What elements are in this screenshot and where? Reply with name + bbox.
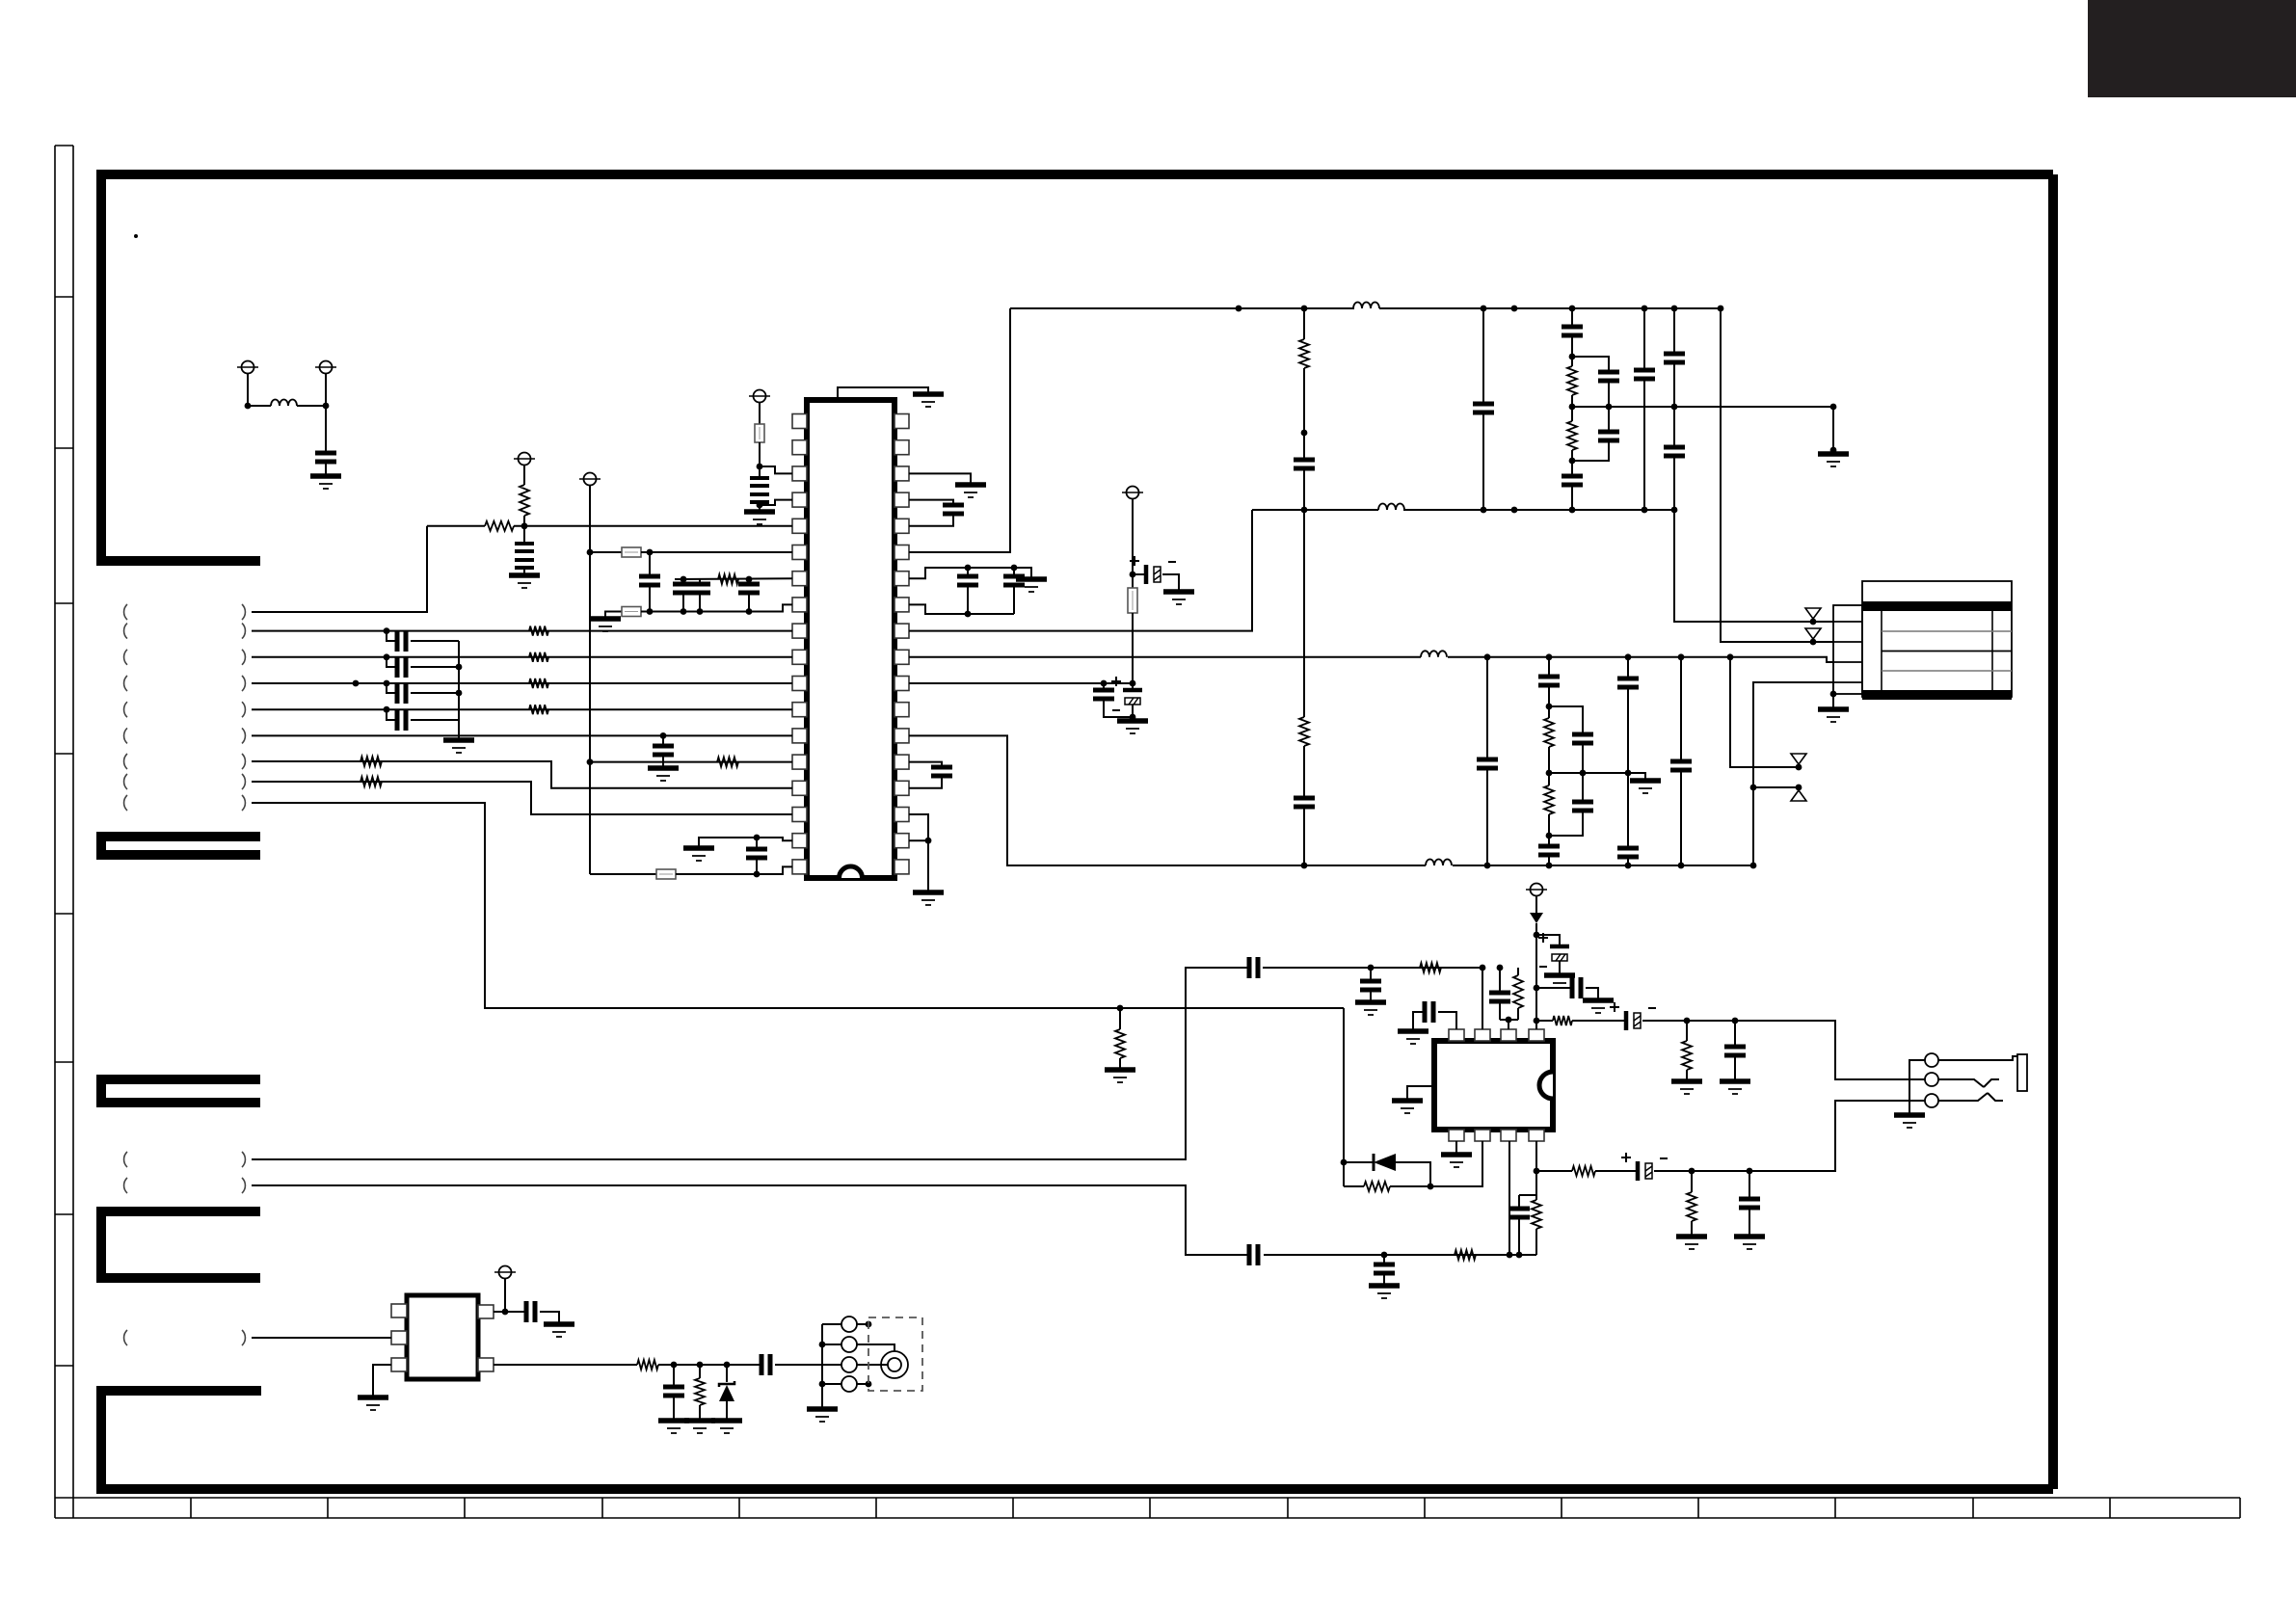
node wire A bias <box>1117 1005 1124 1012</box>
ground below C44 <box>1583 998 1614 1003</box>
wire pin7 row <box>675 577 792 580</box>
capacitor C41 <box>1499 968 1501 991</box>
capacitor C19 <box>931 767 952 776</box>
resistor R4 <box>529 626 548 636</box>
wire down to ground <box>1832 407 1834 453</box>
node feedback right <box>1428 1184 1434 1190</box>
U1 bottom notch <box>840 866 863 878</box>
wire P1 down <box>247 374 249 406</box>
node output row 2 <box>1534 1168 1540 1175</box>
loop capacitor C34 <box>1549 706 1583 732</box>
node mid wire right end <box>1830 404 1837 411</box>
resistor R20 to ground <box>1686 1021 1688 1041</box>
fuse F4 <box>656 869 676 879</box>
wire F2 to U1 pin6 <box>641 551 792 553</box>
U2 pin5 ground <box>1455 1141 1457 1155</box>
jack J2 sleeve bar <box>2017 1054 2027 1091</box>
inductor L3 <box>1378 501 1403 519</box>
wire U1 top to ground <box>838 387 928 400</box>
vertical x1607 divider chain <box>1546 653 1553 660</box>
node filter zener <box>724 1362 731 1369</box>
wire P7 to U3 out <box>504 1279 506 1312</box>
wire C1 to ground <box>325 462 327 476</box>
antenna stub from rail682 <box>1727 653 1734 660</box>
node R1/row <box>521 522 528 529</box>
U3 output node <box>502 1309 509 1316</box>
resistor R2 <box>485 521 514 531</box>
wire R1 to node <box>523 516 525 526</box>
inductor L5 on rail898 <box>1426 857 1453 874</box>
wire to U2 pin2 <box>1482 968 1483 1029</box>
vertical x1785 to connector row2 <box>1718 306 1724 312</box>
capacitor C40 to ground <box>1370 968 1372 979</box>
capacitor C1 <box>315 453 336 462</box>
capacitor C21 <box>1294 460 1315 468</box>
vertical x1689 with caps <box>1625 653 1632 660</box>
terminal P1 <box>242 361 254 374</box>
vertical from wire A <box>1343 1008 1345 1186</box>
resistor R24 <box>1572 1166 1595 1176</box>
wire x612 row907 to U1 pin18 <box>590 873 656 875</box>
bottom ruler strip <box>55 1498 2240 1518</box>
ground at C42 <box>1398 1028 1428 1034</box>
polarized capacitor C43 <box>1536 935 1560 945</box>
wire row A4 to U1 pin11 <box>252 682 792 684</box>
resistor R15 <box>1544 718 1554 747</box>
wire to inductor L1 <box>248 405 271 407</box>
ground stub pin17 row <box>683 845 714 851</box>
vertical x1819 to connector row4 <box>1750 863 1757 869</box>
supply vertical to U2 pin4 <box>1535 923 1537 1029</box>
vertical x1744 with C38 <box>1678 653 1685 660</box>
U1 left pin boxes <box>792 414 807 429</box>
capacitor C33 <box>1538 846 1560 855</box>
U2 pin8 net <box>1535 1141 1537 1195</box>
wire P4 to R1 <box>523 466 525 485</box>
node F1 bottom <box>757 464 763 470</box>
node C49 bottom <box>1516 1252 1523 1259</box>
node C39 out <box>1368 965 1375 971</box>
cable arcs group A <box>124 604 127 620</box>
frame left edge bracket 4 <box>101 1211 260 1278</box>
resistor R17 <box>1420 963 1441 972</box>
capacitor C4 <box>639 576 660 585</box>
wire x674 down <box>649 552 651 576</box>
RCA dashed enclosure <box>868 1317 922 1391</box>
resistor R25 to ground <box>1691 1171 1693 1192</box>
zener diode D2 <box>726 1365 728 1382</box>
capacitor C52 <box>526 1301 535 1322</box>
capacitor C49 <box>1518 1195 1520 1207</box>
node row634 x709 <box>681 608 687 615</box>
wire pin11R row <box>909 682 1133 684</box>
shield symbol 3 <box>1791 754 1806 764</box>
node x1631 upper <box>1569 354 1576 360</box>
vertical x1353 to bottom rail <box>1303 510 1305 717</box>
wire R19 to C45 <box>1572 1020 1626 1022</box>
coupling capacitor C39 <box>1249 957 1258 978</box>
connector J1 thick bottom bar <box>1862 690 2012 700</box>
resistor R13 <box>1567 366 1577 395</box>
capacitor C30 <box>1664 447 1685 456</box>
inductor L2 <box>1354 300 1379 317</box>
wire pin4R/5R loop <box>909 500 953 503</box>
capacitor C29 <box>1664 354 1685 362</box>
input capacitor C42 at U2 pin1 <box>1413 1012 1424 1031</box>
vertical x1706 with C28 <box>1642 306 1648 312</box>
wire out row2 <box>1536 1170 1572 1172</box>
RCA pin circle 2 <box>822 1344 841 1345</box>
capacitor C10 <box>384 653 390 660</box>
wire pin14R/15R loop <box>909 762 942 765</box>
ground at pin7R net <box>1011 565 1018 572</box>
wire to U1 pin14 <box>590 761 792 763</box>
capacitor C11 <box>384 680 390 687</box>
loop capacitor C26 <box>1572 357 1609 370</box>
wire P6 down <box>1132 499 1134 588</box>
connector J1 body <box>1862 581 2012 697</box>
node x1607 mid <box>1546 770 1553 777</box>
wire row A6 to U1 pin13 <box>252 734 792 736</box>
frame left edge bracket 3 <box>101 1079 260 1103</box>
vertical x1737 chain to connector row1 <box>1671 306 1678 312</box>
RCA jack rings <box>881 1351 908 1378</box>
node x612 pin14 row <box>587 758 594 765</box>
node pin7 row x777 <box>746 576 753 583</box>
tie bar caps top <box>1519 1194 1536 1196</box>
wire row B1 to coupling cap <box>252 968 1248 1159</box>
node rail320 x1285 <box>1236 306 1242 312</box>
vertical x1631 divider chain <box>1569 306 1576 312</box>
capacitor C22 <box>1294 798 1315 807</box>
wire row A8 to U1 pin16 <box>252 782 792 814</box>
capacitor C13 <box>756 838 758 849</box>
node pin7 bottom <box>1507 1252 1513 1259</box>
capacitor C5 <box>682 579 684 584</box>
sheet corner block (top-right) <box>2088 0 2296 97</box>
ground at RCA bus <box>807 1406 838 1412</box>
wire to fuse F2 <box>590 551 622 553</box>
U2 left side ground pin <box>1407 1086 1434 1101</box>
resistor R9 <box>360 777 382 786</box>
terminal P7 <box>499 1266 512 1279</box>
capacitor C8 <box>662 735 664 746</box>
decoupling capacitor C44 <box>1536 987 1571 989</box>
top rail wire y320 <box>1010 307 1721 309</box>
regulator U3 body <box>407 1295 478 1379</box>
terminal P3 <box>754 390 766 403</box>
wire pin10R rail to connector <box>909 657 1862 662</box>
terminal P6 <box>1127 487 1139 499</box>
ground below pin16R net <box>913 890 944 895</box>
row y634 ground stub <box>605 612 622 620</box>
node row1302 cap/gnd <box>1381 1252 1388 1259</box>
node row2 load C <box>1747 1168 1753 1175</box>
node row1 load C <box>1732 1018 1739 1024</box>
vertical x1539 with C23 <box>1481 306 1487 312</box>
wire row A3 to U1 pin10 <box>252 656 792 658</box>
node x1607 lower <box>1546 833 1553 839</box>
capacitor C46 to ground <box>1734 1021 1736 1045</box>
ground below C8 <box>648 765 679 771</box>
resistor R22 <box>1455 1250 1476 1260</box>
wire P2 down <box>325 374 327 453</box>
ground below C2 <box>744 509 775 515</box>
resistor R11 <box>1303 308 1305 339</box>
node row11 x1145 <box>1101 680 1108 687</box>
connector J1 inner verticals <box>1882 611 1992 690</box>
wire node to C3 <box>523 526 525 544</box>
node P5 line / pin6 row <box>587 549 594 556</box>
node ladder row A2 <box>384 627 390 634</box>
resistor R6 <box>529 678 548 688</box>
wire U1 pin3R to ground <box>909 473 971 485</box>
wire P3 to fuse <box>759 403 761 424</box>
vertical x1543 with C31 <box>1484 653 1491 660</box>
wire F1 to node <box>759 442 761 466</box>
wire P8 down <box>1535 896 1537 910</box>
node cap top <box>754 835 761 841</box>
resistor R28 to ground <box>699 1365 701 1378</box>
U3 ground pin <box>373 1365 391 1397</box>
resistor R27 <box>637 1360 658 1370</box>
capacitor C51 to ground <box>1749 1171 1750 1197</box>
ground at C52 <box>544 1321 574 1327</box>
nodes x1571 <box>1511 306 1518 312</box>
node pin7 row x709 <box>681 576 687 583</box>
connector J1 inner rows <box>1882 631 2012 671</box>
capacitor C12 <box>384 706 390 713</box>
wire row A2 to U1 pin9 <box>252 630 792 632</box>
series capacitor C54 <box>761 1354 770 1375</box>
capacitor C17 <box>1103 683 1105 690</box>
terminal P2 <box>320 361 333 374</box>
node C2 bottom <box>757 502 763 509</box>
node fuse row x674 <box>647 549 654 556</box>
resistor R26 to ground <box>1119 1008 1121 1029</box>
resistor R16 <box>1544 785 1554 814</box>
terminal P5 <box>584 473 597 486</box>
wire pin7R stub <box>909 568 1014 578</box>
coupling capacitor C47 (row B2) <box>252 1185 1248 1255</box>
resistor R12 <box>1299 717 1309 746</box>
fuse F2 <box>622 547 641 557</box>
ground at pin3R <box>955 482 986 488</box>
wire C2 bottom node <box>759 466 761 478</box>
wire pin13R down to bottom rail <box>909 735 1753 865</box>
wire bend down to connector row 1 <box>252 526 427 612</box>
U1 right pin boxes <box>894 414 909 429</box>
mid wire y802 to ground <box>1549 773 1645 781</box>
capacitor C15 <box>965 565 972 572</box>
resistor R7 <box>529 705 548 714</box>
wire C45 to jack branch <box>1642 1021 1925 1079</box>
supply node 2 <box>1534 985 1540 992</box>
capacitor C24 <box>1562 327 1583 335</box>
node cap stack top <box>1497 965 1504 971</box>
node mix to U2 pin3 <box>1500 1019 1518 1021</box>
jack J2 contact 1 <box>1925 1053 1938 1067</box>
wire L1 to P2 leg <box>297 405 326 407</box>
wire R24 to C50 <box>1595 1170 1638 1172</box>
node C18 bottom <box>1130 714 1136 721</box>
feedback diode D1 <box>1344 1161 1374 1163</box>
ground of cap ladder <box>443 737 474 743</box>
node loop on mid wire <box>1606 404 1613 411</box>
wire row to U1 pin5 <box>514 525 792 527</box>
node x1607 upper <box>1546 704 1553 710</box>
rail y529 wire <box>1252 509 1674 511</box>
wire C4 to row 634 <box>649 585 651 612</box>
node x1631 lower <box>1569 458 1576 465</box>
node U2 pin2 top <box>1480 965 1486 971</box>
U3 left pin boxes <box>391 1304 407 1317</box>
left ruler strip <box>55 146 73 1518</box>
RCA pin circle 1 <box>822 1323 841 1325</box>
ground at U1 top right <box>913 391 944 397</box>
wire arc C to U3 input <box>252 1337 391 1339</box>
polarized capacitor C45 <box>1624 1011 1629 1030</box>
node row A6 cap tap <box>660 732 667 739</box>
fuse F1 <box>755 424 764 442</box>
connector J1 thick top bar <box>1862 601 2012 611</box>
capacitor C7 <box>748 579 750 584</box>
node at P2 leg <box>323 403 330 410</box>
wire U3 out2 long <box>494 1364 637 1366</box>
ground at row y634 left <box>590 616 621 622</box>
wire node to U1 pin4 <box>760 500 792 505</box>
inductor L1 <box>271 400 297 406</box>
node x1353 mid <box>1301 430 1308 437</box>
node row634 x674 <box>647 608 654 615</box>
node filter R <box>697 1362 704 1369</box>
U2 top pin boxes <box>1449 1029 1464 1041</box>
resistor R5 <box>529 652 548 662</box>
capacitor C53 to ground <box>673 1365 675 1385</box>
jack J2 ground arm <box>1909 1060 1925 1115</box>
node cap bottom <box>754 871 761 878</box>
node P6/cap branch <box>1130 572 1136 578</box>
polarized capacitor C50 <box>1636 1161 1641 1181</box>
node row634 x726 <box>697 608 704 615</box>
frame left edge bottom bracket <box>101 1391 261 1489</box>
node row2 load R <box>1689 1168 1695 1175</box>
U2 pin6 feedback net <box>1430 1141 1482 1186</box>
fuse F3 <box>622 607 641 617</box>
loop capacitor C27 <box>1608 407 1610 430</box>
wire out row1 <box>1536 1020 1553 1022</box>
ground below C1 <box>310 473 341 479</box>
resistor R1 <box>520 485 529 516</box>
ground below C18 <box>1117 718 1148 724</box>
ground below C3 <box>509 572 540 578</box>
jack J2 tip lever <box>1938 1056 2017 1060</box>
resistor R8 <box>360 757 382 766</box>
cap ladder bus <box>458 641 460 740</box>
jack J2 contact springs <box>1938 1079 1984 1087</box>
wire pin6R up to top rail <box>909 308 1010 552</box>
resistor R3 <box>718 574 738 584</box>
shield symbol 4 (inverted) <box>1791 790 1806 801</box>
supply node 1 <box>1534 932 1540 939</box>
jack J2 contact 2 <box>1925 1073 1938 1086</box>
node row634 x777 <box>746 608 753 615</box>
wire pin9R to corner up <box>909 510 1252 631</box>
connector J1 ground leg <box>1832 682 1834 709</box>
node at P1 leg <box>245 403 252 410</box>
capacitor C48 to ground <box>1383 1255 1385 1263</box>
wire pin16R/17R to ground <box>909 814 928 892</box>
capacitor C37 <box>1617 848 1639 857</box>
wire row A5 to U1 pin12 <box>252 708 792 710</box>
ground below C43 <box>1544 972 1575 978</box>
node loop mid2 <box>1580 770 1587 777</box>
long vertical wire x612 <box>589 486 591 874</box>
main schematic border frame <box>96 174 2053 1489</box>
cable arc group C <box>124 1330 127 1345</box>
supply node 3 / output row 1 <box>1534 1018 1540 1024</box>
capacitor C3 (double) <box>515 544 534 551</box>
node row A4 <box>353 680 360 687</box>
terminal P4 <box>519 453 531 466</box>
wire R11 down <box>1303 368 1305 460</box>
inductor L4 on rail682 <box>1421 649 1448 666</box>
capacitor C32 <box>1538 677 1560 685</box>
wire C50 to jack branch <box>1654 1101 1925 1171</box>
wire pin8R stub <box>909 604 1014 614</box>
U2 bottom pin boxes <box>1449 1130 1464 1141</box>
stray reference dot <box>134 234 138 238</box>
connector J1 feed shield 1 <box>1810 619 1817 625</box>
node row1 load R <box>1684 1018 1691 1024</box>
capacitor C36 <box>1617 678 1639 687</box>
wire C39 to node <box>1263 967 1482 969</box>
wire row A7 to U1 pin15 <box>252 761 792 788</box>
supply arrow <box>1535 908 1537 914</box>
wire row y634 to U1 pin8 <box>641 604 792 611</box>
jack J2 contact 3 <box>1925 1094 1938 1107</box>
bottom row y1302 <box>1264 1254 1536 1256</box>
node x1819 antenna stub <box>1750 785 1757 791</box>
RCA pin bus <box>821 1324 823 1409</box>
connector J1 feed shield 2 <box>1810 639 1817 646</box>
frame left edge bracket 2 <box>101 837 260 855</box>
U3 right pin boxes <box>478 1305 494 1318</box>
node rail320 x1353 <box>1301 306 1308 312</box>
node rail529 x1353 <box>1301 507 1308 514</box>
frame left edge upper segment with stub <box>96 170 260 561</box>
main IC U1 body <box>807 400 894 878</box>
node feedback left <box>1341 1159 1348 1166</box>
capacitor C25 <box>1562 476 1583 485</box>
wire to U1 pin17 <box>757 838 792 840</box>
loop capacitor C35 <box>1582 773 1584 800</box>
mid reference wire y422 <box>1572 406 1833 408</box>
polarized capacitor C18 <box>1130 680 1136 687</box>
capacitor C9 <box>387 631 397 641</box>
wire C54 to RCA cluster <box>775 1364 844 1366</box>
capacitor C16 <box>1013 568 1015 576</box>
resistor R19 <box>1553 1016 1572 1025</box>
capacitor C6 <box>699 579 701 584</box>
capacitor C2 (double) <box>750 478 769 486</box>
wire node to U1 pin3 <box>760 466 792 473</box>
fuse F5 <box>1128 588 1137 613</box>
resistor R23 <box>1535 1195 1537 1200</box>
U2 right notch <box>1539 1072 1553 1099</box>
polarized capacitor C20 to ground <box>1133 573 1146 575</box>
capacitor C14 <box>943 505 964 514</box>
